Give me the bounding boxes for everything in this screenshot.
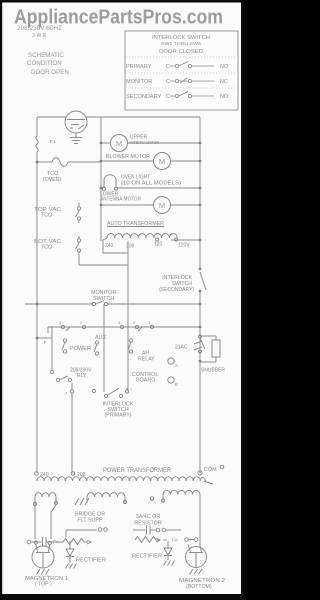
- svg-text:MONITOR: MONITOR: [126, 79, 152, 85]
- svg-text:3A/4C OR: 3A/4C OR: [136, 514, 161, 520]
- svg-text:SWITCH: SWITCH: [93, 296, 114, 302]
- svg-text:FLT SUPP: FLT SUPP: [77, 518, 103, 524]
- svg-text:F1: F1: [50, 139, 56, 145]
- svg-text:C: C: [166, 94, 170, 100]
- svg-text:TCO: TCO: [41, 213, 52, 219]
- svg-text:SCHEMATIC: SCHEMATIC: [28, 52, 65, 59]
- svg-text:CONDITION: CONDITION: [27, 60, 62, 67]
- svg-text:INTERLOCK SWITCH: INTERLOCK SWITCH: [152, 35, 210, 41]
- svg-text:SW1 THRU SW5: SW1 THRU SW5: [161, 41, 201, 47]
- svg-text:C: C: [166, 64, 170, 70]
- svg-text:M: M: [159, 157, 165, 166]
- svg-text:POWER: POWER: [70, 346, 91, 352]
- svg-text:SNUBBER: SNUBBER: [201, 368, 225, 374]
- svg-text:NC: NC: [220, 79, 228, 85]
- svg-text:RLY: RLY: [77, 373, 87, 379]
- svg-text:COM: COM: [204, 467, 217, 473]
- svg-text:RELAY: RELAY: [138, 357, 155, 363]
- svg-text:A: A: [175, 363, 178, 368]
- svg-text:240: 240: [105, 243, 114, 249]
- svg-text:208/230V 60HZ: 208/230V 60HZ: [17, 25, 62, 32]
- svg-text:B: B: [175, 382, 178, 387]
- svg-text:DOOR CLOSED: DOOR CLOSED: [159, 49, 203, 55]
- svg-text:RECTIFIER: RECTIFIER: [132, 554, 162, 560]
- svg-text:BOARD: BOARD: [136, 378, 155, 384]
- svg-text:ANTENNA MOTOR: ANTENNA MOTOR: [100, 197, 141, 203]
- svg-text:120V: 120V: [178, 243, 190, 249]
- svg-text:TCO: TCO: [41, 245, 52, 251]
- svg-text:NO: NO: [220, 64, 228, 70]
- svg-text:F: F: [44, 340, 47, 345]
- svg-text:C: C: [166, 79, 170, 85]
- svg-text:( TOP ): ( TOP ): [35, 582, 52, 588]
- svg-text:3-W R: 3-W R: [32, 33, 47, 39]
- svg-text:BLOWER MOTOR: BLOWER MOTOR: [106, 154, 150, 160]
- svg-text:(SECONDARY): (SECONDARY): [159, 287, 194, 293]
- svg-text:RESISTOR: RESISTOR: [134, 521, 162, 527]
- svg-text:208: 208: [77, 472, 86, 478]
- svg-text:AUTO TRANSFORMER: AUTO TRANSFORMER: [107, 221, 164, 227]
- svg-text:POWER TRANSFORMER: POWER TRANSFORMER: [103, 468, 172, 474]
- svg-text:(PRIMARY): (PRIMARY): [105, 413, 132, 419]
- svg-text:ANTENNA MOTOR: ANTENNA MOTOR: [129, 140, 160, 145]
- svg-text:RECTIFIER: RECTIFIER: [76, 558, 106, 564]
- svg-text:PRIMARY: PRIMARY: [126, 64, 152, 70]
- svg-text:120: 120: [154, 242, 163, 248]
- svg-text:SECONDARY: SECONDARY: [126, 94, 162, 100]
- svg-text:NO: NO: [220, 94, 228, 100]
- svg-text:DOOR OPEN: DOOR OPEN: [31, 69, 69, 76]
- svg-text:(OVEN): (OVEN): [43, 177, 61, 183]
- svg-text:FA: FA: [172, 538, 179, 544]
- svg-text:240: 240: [40, 472, 49, 478]
- svg-text:(BOTTOM): (BOTTOM): [186, 584, 212, 590]
- svg-text:(10 ON ALL MODELS): (10 ON ALL MODELS): [121, 181, 181, 187]
- svg-text:M: M: [116, 139, 122, 148]
- svg-text:21AC: 21AC: [175, 345, 188, 351]
- svg-text:208: 208: [126, 244, 135, 250]
- svg-text:M: M: [159, 201, 165, 210]
- svg-text:FA: FA: [53, 540, 60, 546]
- svg-text:AUX: AUX: [95, 335, 106, 341]
